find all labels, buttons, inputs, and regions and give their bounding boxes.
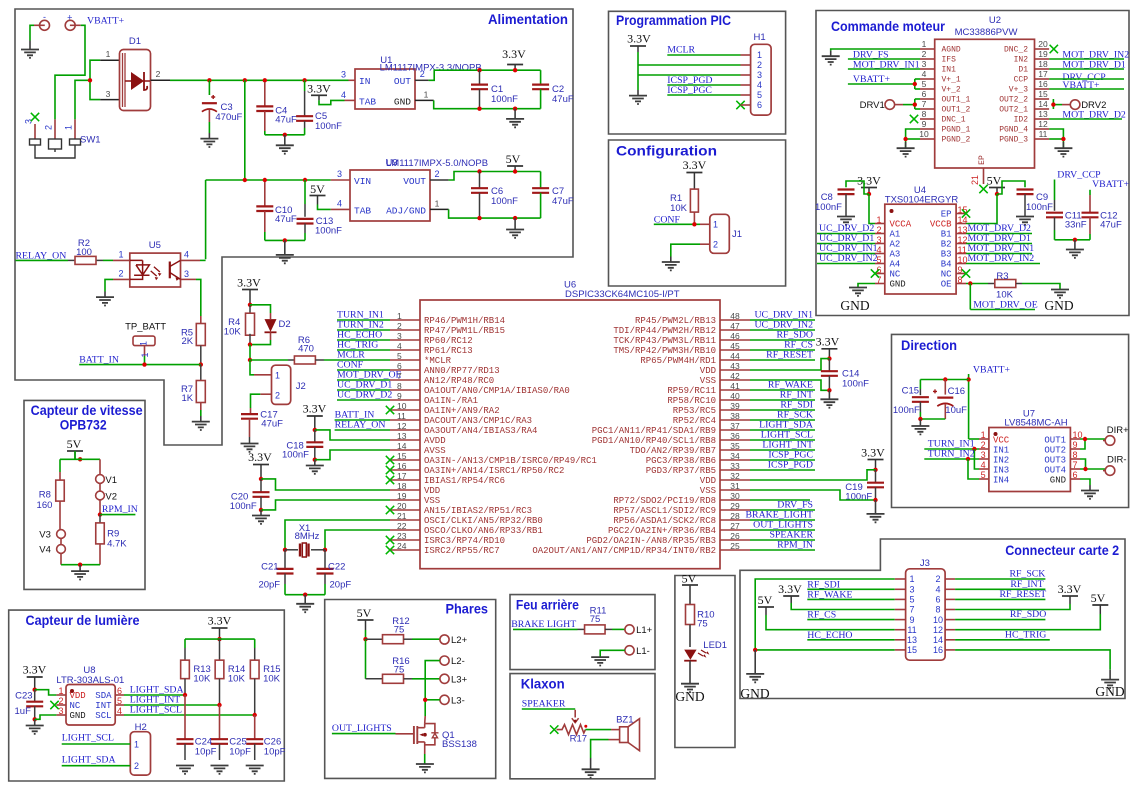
svg-text:33nF: 33nF — [1065, 220, 1087, 231]
svg-text:2: 2 — [397, 321, 402, 331]
svg-text:32: 32 — [730, 471, 740, 481]
wire R3 to ground — [1022, 284, 1060, 290]
resistor R15 — [254, 639, 256, 648]
pin J3-2 — [945, 578, 955, 580]
junction rail feed — [243, 78, 247, 82]
power 3.3V R4 — [242, 289, 258, 291]
capacitor C3 — [208, 80, 210, 95]
svg-text:1: 1 — [139, 341, 149, 346]
no-connect U6-16 — [386, 466, 394, 474]
wire HC_ECHO U6 — [337, 339, 390, 341]
wire TURN_IN2 U6 — [337, 329, 390, 331]
no-connect U6-20 — [386, 506, 394, 514]
svg-text:OA3IN-/AN13/CMP1B/ISRC0/RP49/R: OA3IN-/AN13/CMP1B/ISRC0/RP49/RC1 — [424, 456, 597, 466]
junction rail C4 — [263, 78, 267, 82]
pin U6-19 VSS — [390, 499, 420, 501]
capacitor C18 — [314, 430, 316, 442]
svg-text:V+_2: V+_2 — [942, 86, 961, 95]
wire UC_DRV_D2 U4 — [817, 233, 875, 235]
connector H2 — [130, 732, 150, 775]
pin U7-4 IN3 — [979, 468, 989, 470]
wire J3 pin16 to gnd — [955, 650, 1110, 670]
power 5V C9 — [989, 187, 1005, 189]
svg-text:1: 1 — [275, 370, 280, 380]
terminal V4 — [57, 545, 66, 554]
svg-text:6: 6 — [757, 100, 762, 110]
junction OUT2 tie — [1051, 102, 1055, 106]
svg-text:2: 2 — [275, 390, 280, 400]
pin U6-40 RP58/RC10 — [720, 399, 750, 401]
svg-text:27: 27 — [730, 521, 740, 531]
wire MOT_DRV_IN1 U4 — [966, 253, 1032, 255]
svg-text:DSPIC33CK64MC105-I/PT: DSPIC33CK64MC105-I/PT — [565, 289, 680, 300]
pin U3 ADJ — [430, 208, 449, 210]
svg-text:2: 2 — [876, 225, 881, 235]
resistor R10 — [689, 585, 691, 604]
wire left branch R8 — [59, 459, 61, 472]
wire OSCI — [285, 520, 390, 550]
capacitor C19 — [875, 470, 877, 483]
svg-text:EP: EP — [941, 210, 952, 220]
capacitor C8 — [846, 181, 869, 194]
capacitor C16 — [944, 380, 946, 395]
svg-text:11: 11 — [397, 411, 406, 421]
wire V2 to RPM node — [99, 500, 101, 515]
svg-text:B1: B1 — [941, 230, 952, 240]
svg-text:NC: NC — [890, 270, 901, 280]
svg-text:C23: C23 — [15, 691, 32, 702]
ground BZ1 — [582, 769, 600, 777]
svg-text:47: 47 — [730, 321, 740, 331]
wire LIGHT_SCL U6 — [750, 439, 815, 441]
svg-text:14: 14 — [933, 635, 943, 645]
pin U6-24 ISRC2/RP55/RC7 — [390, 549, 420, 551]
svg-text:100nF: 100nF — [491, 196, 518, 207]
wire C15 C16 bottom rail — [920, 418, 945, 420]
svg-text:13: 13 — [1038, 109, 1048, 119]
svg-text:47uF: 47uF — [275, 214, 297, 225]
svg-text:5: 5 — [397, 351, 402, 361]
svg-text:470: 470 — [298, 344, 314, 355]
diode D2 — [250, 305, 271, 313]
wire U3 ADJ to bottom rail — [449, 209, 541, 218]
junction rail C5 — [302, 78, 306, 82]
power 3.3V C14 — [821, 348, 837, 350]
svg-text:GND: GND — [740, 686, 769, 701]
pin U6-9 OA1IN-/RA1 — [390, 399, 420, 401]
svg-text:10pF: 10pF — [195, 747, 217, 758]
junction PGND right — [1061, 137, 1065, 141]
svg-text:34: 34 — [730, 451, 740, 461]
no-connect U8 NC — [50, 701, 58, 709]
svg-text:13: 13 — [397, 431, 407, 441]
svg-text:3.3V: 3.3V — [23, 663, 47, 677]
svg-text:10pF: 10pF — [264, 747, 286, 758]
svg-text:GND: GND — [1095, 684, 1124, 699]
wire VCCA feed — [869, 194, 875, 224]
svg-text:UC_DRV_D2: UC_DRV_D2 — [337, 390, 392, 401]
pin U2-17 CCP — [1035, 78, 1050, 80]
svg-text:VSS: VSS — [424, 496, 440, 506]
svg-text:TAB: TAB — [354, 206, 371, 217]
capacitor C1 — [479, 70, 481, 84]
junction TP_BATT — [142, 362, 146, 366]
svg-text:Configuration: Configuration — [616, 143, 717, 159]
ic U2 MC33886PVW — [935, 39, 1035, 168]
wire 3.3V vertical H1 — [637, 46, 639, 52]
wire U3 VOUT to 5V rail — [449, 172, 541, 181]
terminal L2+ — [440, 635, 449, 644]
ground J3 right — [1101, 680, 1119, 688]
svg-text:5: 5 — [909, 595, 914, 605]
svg-text:43: 43 — [730, 361, 740, 371]
wire J2 pin2 to C17 — [260, 393, 271, 395]
ground C10 C13 — [276, 255, 294, 263]
svg-text:5V: 5V — [987, 174, 1002, 188]
wire UC_DRV_IN2 U6 — [750, 329, 815, 331]
svg-text:L3-: L3- — [451, 695, 465, 706]
frame Programmation PIC — [609, 11, 786, 134]
svg-text:PGND_1: PGND_1 — [942, 126, 971, 135]
wire MOT_DRV_D1 U2 — [1049, 68, 1124, 70]
ground U5 pin2 — [96, 297, 114, 305]
junction C15 bottom — [918, 417, 922, 421]
svg-text:+: + — [67, 13, 72, 23]
junction R4 D2 top — [248, 303, 252, 307]
pin J3-15 — [895, 649, 906, 651]
wire plus terminal to SW1 pin2 — [55, 25, 85, 119]
wire VIN rail — [206, 179, 331, 181]
connector J1 — [710, 214, 730, 253]
power 5V phares — [358, 619, 374, 621]
svg-text:10: 10 — [397, 401, 407, 411]
svg-text:11: 11 — [907, 625, 916, 635]
buzzer BZ1 — [620, 727, 629, 743]
wire RF_WAKE J3 — [807, 598, 894, 600]
svg-text:Capteur de lumière: Capteur de lumière — [26, 612, 140, 628]
terminal L1- — [625, 646, 634, 655]
svg-text:Connecteur carte 2: Connecteur carte 2 — [1005, 542, 1119, 558]
wire RF_RESET J3 — [955, 598, 1045, 600]
pin U6-16 OA3IN+/AN14/ISRC1/RP50/RC2 — [390, 469, 420, 471]
ground C8 — [837, 217, 855, 225]
ground C14 — [820, 399, 838, 407]
svg-text:4: 4 — [341, 90, 346, 100]
pin J3-11 — [895, 629, 906, 631]
wire C18 ground stub — [314, 460, 316, 466]
svg-text:3.3V: 3.3V — [502, 47, 526, 61]
wire SPEAKER — [522, 708, 575, 710]
junction C18 top — [313, 428, 317, 432]
svg-text:47uF: 47uF — [261, 419, 283, 430]
frame Direction — [892, 334, 1129, 507]
wire VCCB feed — [966, 194, 997, 224]
svg-text:V+_1: V+_1 — [942, 76, 961, 85]
junction V+ tie — [913, 82, 917, 86]
svg-text:15: 15 — [907, 645, 917, 655]
svg-text:OSCI/CLKI/AN5/RP32/RB0: OSCI/CLKI/AN5/RP32/RB0 — [424, 516, 543, 526]
svg-text:PGND_2: PGND_2 — [942, 136, 971, 145]
svg-text:9: 9 — [909, 615, 914, 625]
power 3.3V C18 — [307, 415, 323, 417]
svg-text:7: 7 — [922, 99, 927, 109]
svg-text:OA1IN+/AN9/RA2: OA1IN+/AN9/RA2 — [424, 406, 500, 416]
wire IN4 tie — [968, 459, 979, 479]
junction VBATT rail — [966, 377, 970, 381]
wire H1 pin3 — [638, 74, 741, 76]
wire CONF U6 — [337, 369, 390, 371]
svg-text:3: 3 — [922, 59, 927, 69]
pin U1 OUT — [415, 79, 429, 81]
wire R2 to U5 pin1 — [103, 259, 113, 261]
no-connect U6-24 — [386, 546, 394, 554]
svg-text:V2: V2 — [105, 492, 117, 503]
power 5V OPB732 — [67, 450, 83, 452]
optocoupler U5 — [130, 253, 181, 287]
pin U6-6 ANN0/RP77/RD13 — [390, 369, 420, 371]
wire U2 pin1 to ground — [831, 49, 920, 51]
pin U7-10 OUT1 — [1070, 438, 1080, 440]
ground U2 PGND left — [897, 148, 915, 156]
terminal DIR+ — [1105, 436, 1115, 446]
pin U6-21 OSCI/CLKI/AN5/RP32/RB0 — [390, 519, 420, 521]
svg-text:IFS: IFS — [942, 56, 957, 65]
junction C18 bottom — [313, 458, 317, 462]
svg-text:16: 16 — [397, 461, 407, 471]
power 3.3V J3 left — [783, 595, 799, 597]
svg-text:45: 45 — [730, 341, 740, 351]
svg-text:3.3V: 3.3V — [778, 582, 802, 596]
svg-text:36: 36 — [730, 431, 740, 441]
pin U8-1 VDD — [56, 694, 66, 696]
svg-text:RP52/RC4: RP52/RC4 — [673, 416, 716, 426]
pin U6-44 RP65/PWM4H/RD1 — [720, 359, 750, 361]
svg-text:D2: D2 — [279, 319, 291, 330]
svg-text:SCL: SCL — [95, 711, 111, 721]
frame Configuration — [609, 140, 786, 286]
svg-text:4: 4 — [337, 199, 342, 209]
pin U4-11 B3 — [956, 253, 966, 255]
svg-text:10K: 10K — [193, 674, 211, 685]
svg-text:ID2: ID2 — [1014, 116, 1029, 125]
junction CONF R1 — [692, 222, 696, 226]
svg-text:DIR+: DIR+ — [1107, 425, 1129, 436]
svg-text:8: 8 — [922, 109, 927, 119]
pin U6-45 TMS/RP42/PWM3H/RB10 — [720, 349, 750, 351]
svg-text:IN3: IN3 — [993, 465, 1009, 475]
wire RPM_IN — [100, 514, 135, 516]
pin U4-12 B2 — [956, 243, 966, 245]
svg-text:2: 2 — [420, 69, 425, 79]
wire RF_SDO U6 — [750, 339, 815, 341]
ground C15 C16 — [911, 426, 929, 434]
pin U1 GND — [415, 99, 434, 101]
pin U2-5 V+_2 — [920, 88, 935, 90]
pin U6-22 OSCO/CLKO/AN6/RP33/RB1 — [390, 529, 420, 531]
svg-text:2: 2 — [935, 574, 940, 584]
power 3.3V rail — [507, 64, 523, 66]
svg-text:IN2: IN2 — [1014, 56, 1029, 65]
svg-text:LIGHT_SDA: LIGHT_SDA — [62, 754, 116, 765]
junction C19 bottom — [873, 498, 877, 502]
svg-text:RP46/PWM1H/RB14: RP46/PWM1H/RB14 — [424, 316, 505, 326]
wire LIGHT_INT U6 — [750, 449, 815, 451]
ground C3 — [200, 139, 218, 147]
svg-text:11: 11 — [958, 245, 967, 255]
wire OUT4 to DIR- — [1080, 468, 1105, 470]
pin U7-7 OUT4 — [1070, 468, 1080, 470]
pin U2-19 IN2 — [1035, 58, 1050, 60]
junction C1 top — [477, 68, 481, 72]
svg-text:2: 2 — [134, 761, 139, 771]
wire 3.3V J3 pin8 — [955, 604, 1070, 610]
svg-text:OA1IN-/RA1: OA1IN-/RA1 — [424, 396, 478, 406]
pin U6-17 IBIAS1/RP54/RC6 — [390, 479, 420, 481]
wire J1 pin2 to ground — [700, 243, 710, 245]
wire LIGHT_INT — [124, 704, 220, 706]
regulator U1 — [355, 69, 415, 109]
svg-text:20: 20 — [1038, 39, 1048, 49]
svg-text:PGD2/OA2IN-/AN8/RP35/RB3: PGD2/OA2IN-/AN8/RP35/RB3 — [586, 536, 716, 546]
svg-text:V+_3: V+_3 — [1009, 86, 1028, 95]
wire ICSP_PGD to H1 pin4 — [667, 84, 740, 86]
svg-text:RP53/RC5: RP53/RC5 — [673, 406, 716, 416]
power 3.3V J3 right — [1062, 595, 1078, 597]
svg-text:75: 75 — [394, 665, 405, 676]
svg-text:1: 1 — [757, 50, 762, 60]
svg-text:L2+: L2+ — [451, 635, 468, 646]
pin U6-5 *MCLR — [390, 359, 420, 361]
pin U6-46 TCK/RP43/PWM3L/RB11 — [720, 339, 750, 341]
svg-text:LM1117IMPX-3.3/NOPB: LM1117IMPX-3.3/NOPB — [380, 63, 482, 74]
wire OUT1 to DIR+ — [1080, 438, 1105, 440]
svg-text:A3: A3 — [890, 250, 901, 260]
svg-text:40: 40 — [730, 391, 740, 401]
wire MCLR to H1 pin1 — [667, 54, 740, 56]
svg-text:B2: B2 — [941, 240, 952, 250]
pin U7-6 GND — [1070, 478, 1080, 480]
resistor R12 — [366, 638, 383, 640]
svg-text:VSS: VSS — [700, 486, 716, 496]
pin U6-26 PGD2/OA2IN-/AN8/RP35/RB3 — [720, 539, 750, 541]
pin J3-10 — [945, 619, 955, 621]
svg-text:100nF: 100nF — [1026, 202, 1053, 213]
terminal V2 — [96, 491, 105, 500]
junction IN2 IN4 — [966, 457, 970, 461]
svg-text:47uF: 47uF — [552, 94, 574, 105]
svg-text:1K: 1K — [181, 393, 193, 404]
junction VIN feed — [243, 178, 247, 182]
pin U6-10 OA1IN+/AN9/RA2 — [390, 409, 420, 411]
ground R3 — [1051, 290, 1069, 298]
ic U8 LTR-303ALS-01 — [66, 685, 115, 726]
pin U6-15 OA3IN-/AN13/CMP1B/ISRC0/RP49/RC1 — [390, 459, 420, 461]
svg-text:V3: V3 — [39, 530, 51, 541]
wire MOT_DRV_IN2 U2 — [1049, 58, 1124, 60]
svg-text:RP45/PWM2L/RB13: RP45/PWM2L/RB13 — [635, 316, 716, 326]
wire vitesse top rail — [60, 458, 100, 460]
svg-text:Phares: Phares — [446, 601, 489, 617]
junction OUT3 OUT4 — [1083, 467, 1087, 471]
pin U4-15 EP — [956, 213, 966, 215]
svg-text:7: 7 — [1073, 460, 1078, 470]
pin U6-11 DACOUT/AN3/CMP1C/RA3 — [390, 419, 420, 421]
svg-text:75: 75 — [697, 619, 708, 630]
capacitor C13 — [304, 180, 306, 204]
svg-text:35: 35 — [730, 441, 740, 451]
switch SW1 — [34, 124, 36, 139]
wire vitesse bottom rail — [61, 564, 100, 566]
svg-text:RF_SDO: RF_SDO — [1010, 609, 1046, 620]
svg-text:C16: C16 — [948, 386, 965, 397]
ground C23 — [26, 726, 44, 734]
svg-text:100nF: 100nF — [315, 121, 342, 132]
resistor R16 — [383, 674, 404, 683]
pin U6-48 RP45/PWM2L/RB13 — [720, 319, 750, 321]
svg-text:2: 2 — [434, 169, 439, 179]
wire VSS pin42 to C14 — [750, 380, 829, 390]
svg-text:8: 8 — [397, 381, 402, 391]
junction C4C5 gnd — [283, 133, 287, 137]
wire DRV_FS U6 — [750, 509, 815, 511]
wire LIGHT_SDA H2 — [62, 765, 131, 767]
svg-text:10K: 10K — [228, 674, 246, 685]
wire RF_SDI U6 — [750, 409, 815, 411]
svg-text:14: 14 — [397, 441, 407, 451]
transistor Q1 BSS138 — [396, 733, 414, 735]
wire UC_DRV_D2 U6 — [337, 399, 390, 401]
capacitor C26 — [254, 715, 256, 739]
svg-text:4: 4 — [981, 460, 986, 470]
junction vitesse gnd — [78, 563, 82, 567]
svg-text:AVSS: AVSS — [424, 446, 446, 456]
svg-text:IN4: IN4 — [993, 475, 1009, 485]
junction L3- — [423, 698, 427, 702]
svg-text:8: 8 — [1073, 450, 1078, 460]
svg-text:PGD3/RP37/RB5: PGD3/RP37/RB5 — [646, 466, 716, 476]
svg-text:RP58/RC10: RP58/RC10 — [667, 396, 716, 406]
wire UC_DRV_IN2 U4 — [817, 263, 875, 265]
capacitor C10 — [264, 182, 266, 206]
pin U6-4 RP61/RC13 — [390, 349, 420, 351]
svg-text:RELAY_ON: RELAY_ON — [335, 420, 386, 431]
ground U7 — [1081, 491, 1099, 499]
wire BRAKE_LIGHT U6 — [750, 519, 815, 521]
svg-text:Klaxon: Klaxon — [521, 676, 565, 692]
frame Klaxon — [510, 674, 655, 779]
junction C19 top — [873, 468, 877, 472]
wire OUT_LIGHTS to Q1 gate — [332, 733, 396, 735]
wire VSS pin31 to C19 — [750, 490, 876, 500]
svg-text:24: 24 — [397, 541, 407, 551]
svg-text:4: 4 — [922, 69, 927, 79]
pin U6-25 OA2OUT/AN1/AN7/CMP1D/RP34/INT0/RB2 — [720, 549, 750, 551]
battery terminal minus — [34, 24, 45, 26]
pin J3-13 — [895, 639, 906, 641]
svg-text:1: 1 — [981, 430, 986, 440]
power 5V J3 right — [1092, 604, 1108, 606]
svg-text:2: 2 — [118, 269, 123, 279]
wire rail down-feed to VIN rail — [244, 80, 246, 180]
pin U6-38 RP52/RC4 — [720, 419, 750, 421]
pin U2-12 PGND_4 — [1035, 128, 1050, 130]
wire U4 OE node — [966, 283, 988, 285]
svg-text:5V: 5V — [758, 593, 773, 607]
svg-text:2: 2 — [757, 60, 762, 70]
pin U8-3 GND — [56, 714, 66, 716]
svg-text:19: 19 — [1038, 49, 1048, 59]
ground X1 — [296, 604, 314, 612]
